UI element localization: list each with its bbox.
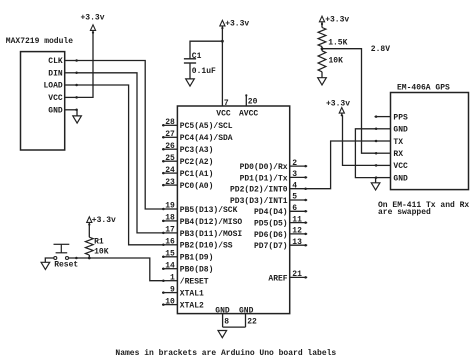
ground (C1) xyxy=(186,79,195,86)
wire module GND down xyxy=(76,110,78,116)
svg-text:+3.3v: +3.3v xyxy=(225,20,249,29)
svg-text:AVCC: AVCC xyxy=(239,109,258,118)
ground (GPS GND) xyxy=(371,183,380,190)
pin 9 XTAL1 stub+number+label xyxy=(162,285,204,298)
svg-text:PPS: PPS xyxy=(393,113,408,122)
pin 12 PD6(D6) stub+number+label xyxy=(254,227,307,240)
svg-text:PB4(D12)/MISO: PB4(D12)/MISO xyxy=(180,218,243,227)
svg-text:7: 7 xyxy=(224,99,229,108)
pin 24 PC1(A1) stub+number+label xyxy=(162,166,213,179)
pin 28 PC5(A5)/SCL stub+number+label xyxy=(162,118,233,131)
svg-text:26: 26 xyxy=(165,142,175,151)
caption xyxy=(115,349,336,358)
pin 7 number xyxy=(224,99,229,108)
junction dot divider xyxy=(321,47,324,50)
power +3.3v symbol (module VCC) xyxy=(80,13,104,33)
power +3.3v symbol (divider) xyxy=(319,16,349,26)
GPS pin GND5 stub+label xyxy=(375,174,409,183)
svg-text:PC3(A3): PC3(A3) xyxy=(180,146,214,155)
svg-text:DIN: DIN xyxy=(48,69,63,78)
wire +3.3v to R2 xyxy=(321,24,323,28)
module pin VCC stub xyxy=(65,96,78,99)
svg-text:VCC: VCC xyxy=(216,109,231,118)
pin 22 stub xyxy=(245,314,247,328)
pin 10 XTAL2 stub+number+label xyxy=(162,297,204,310)
wire GPS GND1 to GND2 xyxy=(355,129,376,178)
label Reset xyxy=(54,260,78,269)
svg-text:9: 9 xyxy=(170,285,175,294)
svg-text:PD0(D0)/Rx: PD0(D0)/Rx xyxy=(240,163,288,172)
wire C1 branch xyxy=(190,41,222,59)
svg-text:14: 14 xyxy=(165,261,175,270)
svg-text:6: 6 xyxy=(292,204,297,213)
label EM-406A GPS xyxy=(397,83,450,92)
svg-text:VCC: VCC xyxy=(48,94,63,103)
pin 20 number xyxy=(248,98,258,107)
pushbutton actuator xyxy=(54,244,70,253)
svg-text:2.8V: 2.8V xyxy=(371,45,390,54)
module pin GND stub xyxy=(65,109,78,112)
module pin DIN stub xyxy=(65,72,78,75)
pin 25 PC2(A2) stub+number+label xyxy=(162,154,213,167)
pin 19 PB5(D13)/SCK stub+number+label xyxy=(162,202,238,215)
pin 8 number xyxy=(224,318,229,327)
svg-text:18: 18 xyxy=(165,214,175,223)
svg-text:17: 17 xyxy=(165,226,175,235)
GPS box EM-406A xyxy=(391,93,469,190)
label MAX7219 module xyxy=(6,37,73,46)
label 10K (divider) xyxy=(329,56,344,65)
svg-text:VCC: VCC xyxy=(393,162,408,171)
svg-text:CLK: CLK xyxy=(48,57,63,66)
junction dot R1/reset xyxy=(88,257,91,260)
svg-text:are swapped: are swapped xyxy=(378,208,431,217)
module pin CLK label xyxy=(48,57,63,66)
wire +3.3v to VCC pin 7 xyxy=(221,27,223,106)
module pin GND label xyxy=(48,106,63,115)
pin 23 PC0(A0) stub+number+label xyxy=(162,178,213,191)
svg-text:24: 24 xyxy=(165,166,175,175)
pin 18 PB4(D12)/MISO stub+number+label xyxy=(162,214,242,227)
power +3.3v symbol (R1) xyxy=(87,216,116,226)
label R1 xyxy=(94,238,104,247)
svg-text:27: 27 xyxy=(165,130,175,139)
wire R1 bottom xyxy=(88,255,90,258)
svg-text:11: 11 xyxy=(292,215,302,224)
svg-text:TX: TX xyxy=(393,138,403,147)
pushbutton contact right xyxy=(66,257,69,260)
svg-text:PC0(A0): PC0(A0) xyxy=(180,182,214,191)
svg-text:XTAL2: XTAL2 xyxy=(180,302,204,311)
module pin CLK stub xyxy=(65,59,78,62)
svg-text:PD6(D6): PD6(D6) xyxy=(254,231,288,240)
svg-text:2: 2 xyxy=(292,159,297,168)
module pin DIN label xyxy=(48,69,63,78)
MCU AVCC label xyxy=(239,109,258,118)
pin 26 PC3(A3) stub+number+label xyxy=(162,142,213,155)
pin 11 PD5(D5) stub+number+label xyxy=(254,215,307,228)
GPS pin VCC4 stub+label xyxy=(375,162,409,171)
wire module VCC to +3.3v xyxy=(78,33,93,98)
resistor R1 xyxy=(85,237,93,255)
pin 14 PB0(D8) stub+number+label xyxy=(162,261,213,274)
wire GPS VCC to +3.3v xyxy=(343,115,377,165)
svg-text:10: 10 xyxy=(165,297,175,306)
MCU GND label (pin 8) xyxy=(215,306,230,315)
svg-text:1.5K: 1.5K xyxy=(328,39,347,48)
svg-text:PC4(A4)/SDA: PC4(A4)/SDA xyxy=(180,134,233,143)
svg-text:AREF: AREF xyxy=(268,274,287,283)
wire reset net to /RESET xyxy=(69,257,165,281)
svg-text:22: 22 xyxy=(247,318,257,327)
svg-text:MAX7219 module: MAX7219 module xyxy=(6,37,73,46)
svg-text:+3.3v: +3.3v xyxy=(92,216,116,225)
svg-text:Names in brackets are Arduino: Names in brackets are Arduino Uno board … xyxy=(115,349,336,358)
pin 15 PB1(D9) stub+number+label xyxy=(162,250,213,263)
pin 3 PD1(D1)/Tx stub+number+label xyxy=(240,170,308,183)
GPS pin RX3 stub+label xyxy=(375,150,404,159)
svg-text:RX: RX xyxy=(393,150,403,159)
MCU VCC label xyxy=(216,109,231,118)
svg-text:21: 21 xyxy=(292,270,302,279)
GPS pin PPS0 stub+label xyxy=(375,113,409,122)
ground (divider) xyxy=(318,78,327,85)
pin 6 PD4(D4) stub+number+label xyxy=(254,204,307,217)
svg-text:28: 28 xyxy=(165,118,175,127)
ground (reset button) xyxy=(41,262,50,269)
label 2.8V xyxy=(371,45,390,54)
svg-text:4: 4 xyxy=(292,181,297,190)
svg-text:+3.3v: +3.3v xyxy=(326,99,350,108)
svg-text:PC5(A5)/SCL: PC5(A5)/SCL xyxy=(180,122,233,131)
junction dot C1 branch xyxy=(221,40,224,43)
wire CLK to PB5/SCK xyxy=(78,61,164,210)
svg-text:+3.3v: +3.3v xyxy=(325,16,349,25)
svg-text:0.1uF: 0.1uF xyxy=(192,67,216,76)
label C1 xyxy=(192,52,202,61)
module pin LOAD label xyxy=(43,82,62,91)
label 10K (R1) xyxy=(94,247,109,256)
svg-text:PD4(D4): PD4(D4) xyxy=(254,208,288,217)
pin 21 AREF stub+number+label xyxy=(268,270,307,283)
svg-text:PD2(D2)/INT0: PD2(D2)/INT0 xyxy=(230,186,288,195)
module pin LOAD stub xyxy=(65,84,78,87)
svg-text:PB3(D11)/MOSI: PB3(D11)/MOSI xyxy=(180,230,243,239)
svg-text:PC1(A1): PC1(A1) xyxy=(180,170,214,179)
power +3.3v symbol (GPS VCC) xyxy=(326,99,350,116)
ground (module GND) xyxy=(73,116,82,123)
svg-text:PD7(D7): PD7(D7) xyxy=(254,242,288,251)
pin 27 PC4(A4)/SDA stub+number+label xyxy=(162,130,233,143)
svg-text:/RESET: /RESET xyxy=(180,278,209,287)
svg-text:XTAL1: XTAL1 xyxy=(180,290,204,299)
svg-text:12: 12 xyxy=(292,227,302,236)
svg-text:5: 5 xyxy=(292,193,297,202)
pin 5 PD3(D3)/INT1 stub+number+label xyxy=(230,193,307,206)
wire +3.3v to R1 xyxy=(88,225,90,238)
pin 8 stub xyxy=(222,314,224,328)
resistor R3 10K xyxy=(318,51,326,72)
svg-text:PC2(A2): PC2(A2) xyxy=(180,158,214,167)
svg-text:GND: GND xyxy=(393,126,408,135)
wire button to ground xyxy=(45,258,54,263)
wire LOAD to PB2/SS xyxy=(78,85,164,245)
svg-text:3: 3 xyxy=(292,170,297,179)
ground (MCU) xyxy=(218,331,227,338)
svg-text:PB1(D9): PB1(D9) xyxy=(180,254,214,263)
svg-text:10K: 10K xyxy=(94,247,109,256)
wire GPS GND2 down xyxy=(375,178,377,183)
wire pin8-pin22 join xyxy=(223,326,246,328)
power +3.3v symbol (VCC pin 7) xyxy=(220,20,250,30)
svg-text:C1: C1 xyxy=(192,52,202,61)
pin 4 PD2(D2)/INT0 stub+number+label xyxy=(230,181,307,194)
MAX7219 module box U2 xyxy=(21,52,65,150)
wire R2 to R3 xyxy=(321,47,323,51)
svg-text:PB0(D8): PB0(D8) xyxy=(180,266,214,275)
svg-text:PD3(D3)/INT1: PD3(D3)/INT1 xyxy=(230,197,288,206)
svg-text:Reset: Reset xyxy=(54,260,78,269)
svg-text:8: 8 xyxy=(224,318,229,327)
svg-text:PB2(D10)/SS: PB2(D10)/SS xyxy=(180,242,233,251)
svg-text:20: 20 xyxy=(248,98,258,107)
pin 13 PD7(D7) stub+number+label xyxy=(254,238,307,251)
wire R3 to ground xyxy=(321,72,323,78)
pushbutton contact left xyxy=(54,257,57,260)
pin 22 number xyxy=(247,318,257,327)
wire C1 to ground xyxy=(189,63,191,79)
note EM-411 xyxy=(378,201,469,217)
wire DIN to PB3/MOSI xyxy=(78,73,164,233)
svg-text:R1: R1 xyxy=(94,238,104,247)
label 0.1uF xyxy=(192,67,216,76)
svg-text:+3.3v: +3.3v xyxy=(80,13,104,22)
svg-text:GND: GND xyxy=(239,306,254,315)
svg-text:PB5(D13)/SCK: PB5(D13)/SCK xyxy=(180,206,238,215)
wire GPS TX to PD2/INT0 xyxy=(307,141,377,189)
MCU box U1 xyxy=(177,106,289,314)
capacitor C1 plates xyxy=(184,59,196,63)
GPS pin GND1 stub+label xyxy=(375,126,409,135)
svg-text:GND: GND xyxy=(393,174,408,183)
svg-text:25: 25 xyxy=(165,154,175,163)
GPS pin TX2 stub+label xyxy=(375,138,404,147)
pin 2 PD0(D0)/Rx stub+number+label xyxy=(240,159,308,172)
svg-text:16: 16 xyxy=(165,238,175,247)
svg-text:15: 15 xyxy=(165,250,175,259)
resistor R2 1.5K xyxy=(318,28,326,47)
svg-text:PD5(D5): PD5(D5) xyxy=(254,220,288,229)
svg-text:13: 13 xyxy=(292,238,302,247)
module pin VCC label xyxy=(48,94,63,103)
wire GPS RX to divider xyxy=(322,49,376,154)
svg-text:LOAD: LOAD xyxy=(43,82,62,91)
svg-text:19: 19 xyxy=(165,202,175,211)
MCU GND label (pin 22) xyxy=(239,306,254,315)
svg-text:23: 23 xyxy=(165,178,175,187)
pin 20 stub AVCC xyxy=(245,94,247,106)
pin 1 /RESET stub+number+label xyxy=(162,273,209,286)
svg-text:EM-406A GPS: EM-406A GPS xyxy=(397,83,450,92)
svg-text:10K: 10K xyxy=(329,56,344,65)
svg-text:GND: GND xyxy=(48,106,63,115)
pin 17 PB3(D11)/MOSI stub+number+label xyxy=(162,226,242,239)
svg-text:1: 1 xyxy=(170,273,175,282)
pin 16 PB2(D10)/SS stub+number+label xyxy=(162,238,233,251)
svg-text:PD1(D1)/Tx: PD1(D1)/Tx xyxy=(240,174,288,183)
label 1.5K xyxy=(328,39,347,48)
